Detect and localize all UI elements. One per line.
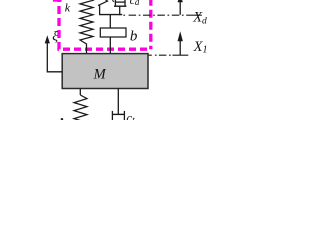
svg-text:cd: cd [130,0,140,7]
damper c_d piston plate [115,1,126,3]
datum line X_1 (dash-dot) [149,54,189,56]
ground datum dot (cropped) [61,118,63,120]
spring k_d lower rod [99,5,101,14]
svg-text:X1: X1 [193,39,208,56]
damper c_d cylinder bottom [114,5,126,7]
damper c_d cylinder right wall [124,0,126,6]
svg-text:b: b [130,28,138,44]
spring k [80,0,93,54]
damper c_t cylinder left wall (cropped) [111,111,113,121]
svg-text:ct: ct [126,110,135,120]
arrow X_1 shaft [179,39,181,55]
dashed absorber box left edge [57,0,60,49]
label k_d remnant [112,0,114,2]
dashed absorber box bottom edge [57,48,150,51]
spring k_t (cropped) [74,95,87,122]
arrow X_d head (cropped) [178,0,183,2]
arrow X_d (cropped shaft) [179,0,181,15]
rod mass to spring k_t [79,89,81,96]
rod bar to damper b [109,15,111,28]
arrow X_1 head [178,31,183,41]
xi arrow head [45,35,50,43]
damper c_d rod [119,6,121,15]
svg-text:k: k [65,1,71,15]
svg-text:M: M [93,67,107,83]
svg-text:Xd: Xd [192,10,207,27]
damper c_d cylinder left wall [114,0,116,6]
connecting bar [99,14,122,16]
damper c_t piston plate [112,113,124,115]
rod mass to damper c_t [117,89,119,115]
datum line X_d (dash-dot) [123,14,201,16]
damper b box [100,28,126,37]
dashed absorber box right edge [149,0,152,49]
spring k_d (cropped) [98,0,108,6]
svg-text:ξ: ξ [52,29,58,44]
dashed absorber box top edge (cropped corner dash) [53,0,62,2]
xi connector and arrow shaft [47,40,62,72]
damper c_t cylinder right wall (cropped) [123,111,125,121]
mass M block [62,54,148,89]
rod damper b to mass [109,37,111,54]
